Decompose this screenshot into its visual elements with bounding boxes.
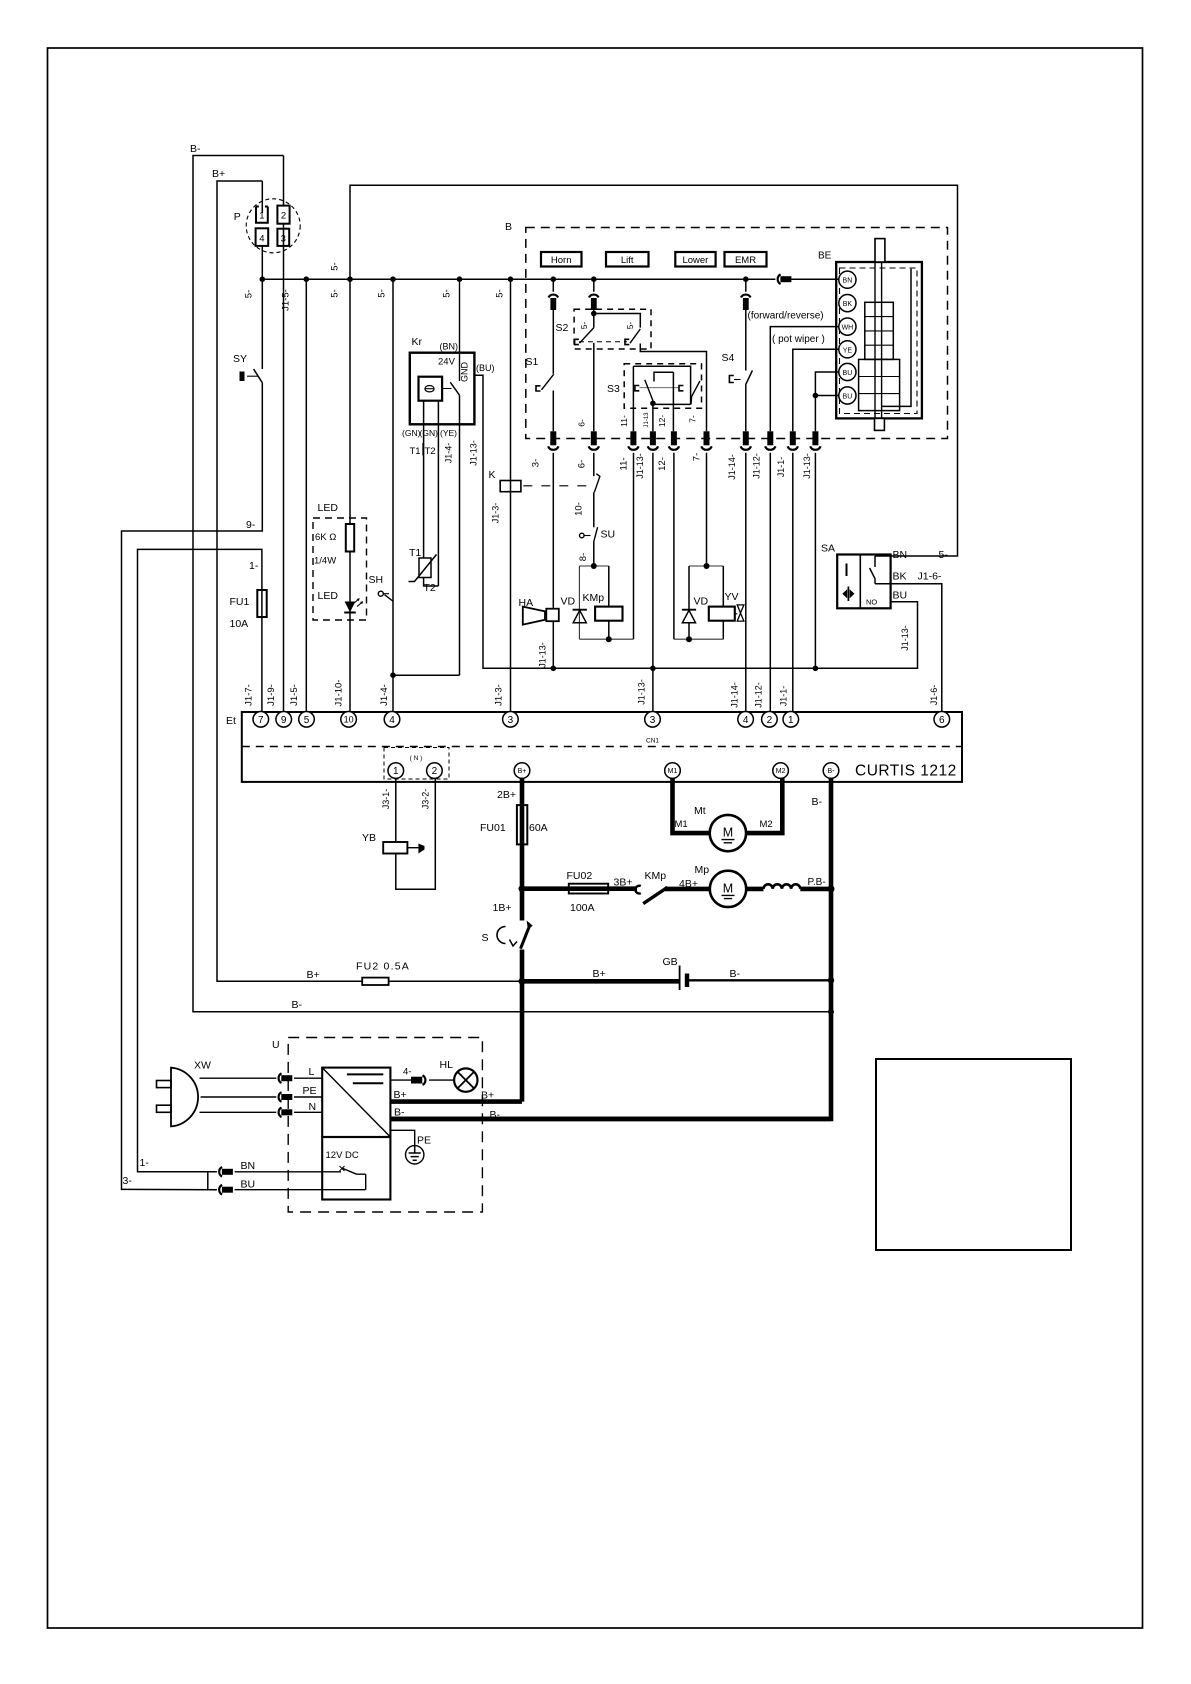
fuse FU1 10A bbox=[257, 590, 266, 617]
svg-text:3: 3 bbox=[650, 715, 656, 726]
svg-text:Lower: Lower bbox=[682, 255, 708, 266]
wire charger B- thick bbox=[390, 1117, 831, 1122]
LED dashed box bbox=[313, 518, 367, 620]
svg-text:T2: T2 bbox=[424, 582, 436, 594]
svg-text:T1: T1 bbox=[410, 446, 421, 457]
svg-text:NO: NO bbox=[866, 598, 877, 607]
S2 right branch bbox=[594, 314, 707, 567]
BE terminal BN bbox=[839, 271, 856, 288]
junction 7- at YV frame bbox=[704, 563, 710, 569]
connector Lift wire at box edge bbox=[591, 431, 597, 445]
svg-text:B: B bbox=[505, 221, 512, 233]
svg-text:(BU): (BU) bbox=[476, 363, 495, 373]
SA BK output to Et circle 6 bbox=[875, 584, 942, 712]
button Lower bbox=[675, 252, 715, 267]
svg-text:5-: 5- bbox=[442, 289, 453, 297]
Et bottom terminal M2 bbox=[773, 763, 789, 779]
K linkage dashed bbox=[523, 485, 589, 487]
switch SY bbox=[261, 279, 263, 369]
wire B- thick main bbox=[390, 778, 831, 1119]
svg-text:S3: S3 bbox=[607, 383, 620, 395]
wire J1-4 bus to Et circle 4 bbox=[392, 279, 394, 712]
fuse FU02 100A bbox=[569, 884, 608, 894]
junction battery/B- bbox=[828, 977, 834, 983]
connector 12- at box edge bbox=[671, 431, 677, 445]
svg-text:U: U bbox=[272, 1039, 280, 1051]
junction 8- at KMp frame bbox=[591, 563, 597, 569]
SA left cell symbols bbox=[846, 564, 848, 577]
wire 2B+ thick B+ drop bbox=[520, 778, 525, 889]
connector Horn wire at bus bbox=[549, 295, 559, 298]
svg-text:LED: LED bbox=[318, 590, 339, 602]
svg-text:J1-13-: J1-13- bbox=[635, 453, 645, 479]
svg-text:B-: B- bbox=[730, 968, 741, 980]
junction 1B+ bbox=[519, 885, 526, 892]
wire inductor to B- bbox=[800, 887, 831, 892]
fuse FU01 60A bbox=[517, 805, 527, 844]
wire B+ drop to P pin 1 bbox=[261, 181, 263, 213]
svg-text:M1: M1 bbox=[668, 768, 678, 775]
S2 linkage dashed bbox=[579, 341, 627, 343]
connector J1-13 at box edge bbox=[650, 431, 656, 445]
svg-text:S: S bbox=[482, 932, 489, 944]
svg-text:Mp: Mp bbox=[695, 864, 710, 876]
svg-text:J1-3-: J1-3- bbox=[494, 684, 505, 706]
svg-text:5-: 5- bbox=[330, 289, 341, 297]
svg-text:J1-13-: J1-13- bbox=[538, 642, 548, 668]
wire YE to J1-1 bbox=[793, 349, 839, 431]
svg-text:J1-6-: J1-6- bbox=[918, 571, 942, 583]
svg-text:J1-10-: J1-10- bbox=[334, 680, 345, 707]
svg-text:B-: B- bbox=[394, 1107, 405, 1119]
svg-text:J1-14-: J1-14- bbox=[730, 682, 740, 708]
BE ladder upper bbox=[865, 302, 894, 359]
sensor SA box bbox=[837, 555, 890, 609]
svg-text:LED: LED bbox=[318, 502, 339, 514]
svg-text:J1-13-: J1-13- bbox=[900, 625, 910, 651]
CN2 dashed box bbox=[384, 748, 449, 780]
svg-text:60A: 60A bbox=[529, 822, 548, 834]
svg-text:BE: BE bbox=[818, 251, 832, 262]
svg-text:BK: BK bbox=[893, 571, 907, 583]
svg-text:FU2 0.5A: FU2 0.5A bbox=[356, 961, 410, 973]
svg-text:8-: 8- bbox=[578, 553, 589, 561]
S2 left switch bbox=[575, 339, 579, 344]
wire Kr 24V input bbox=[459, 279, 461, 381]
wire Kr YE output bbox=[459, 395, 461, 675]
svg-text:B-: B- bbox=[190, 143, 201, 155]
svg-text:7: 7 bbox=[258, 715, 264, 726]
svg-text:J1-4-: J1-4- bbox=[379, 684, 390, 706]
svg-text:BU: BU bbox=[893, 590, 908, 602]
svg-text:(forward/reverse): (forward/reverse) bbox=[748, 311, 824, 322]
svg-text:HL: HL bbox=[440, 1059, 454, 1071]
svg-text:J1-4-: J1-4- bbox=[444, 443, 454, 464]
wire J3-1 / J3-2 loop bbox=[396, 778, 436, 889]
S3 common junction bbox=[650, 401, 656, 407]
svg-text:J1-1-: J1-1- bbox=[779, 686, 789, 707]
svg-text:S1: S1 bbox=[526, 356, 539, 368]
junction BU pair bbox=[813, 393, 819, 399]
12V switch bbox=[340, 1166, 345, 1171]
wire Kr T1 leg bbox=[423, 401, 425, 558]
svg-text:1B+: 1B+ bbox=[493, 902, 512, 914]
svg-text:9: 9 bbox=[281, 715, 287, 726]
connector EMR at box edge bbox=[743, 431, 749, 445]
svg-text:10: 10 bbox=[344, 715, 354, 725]
LED diode bbox=[345, 602, 356, 613]
svg-text:B+: B+ bbox=[518, 768, 527, 775]
svg-text:1/4W: 1/4W bbox=[314, 556, 336, 567]
S3 frame bbox=[633, 366, 690, 404]
svg-text:Kr: Kr bbox=[412, 336, 423, 348]
svg-text:1-: 1- bbox=[249, 560, 259, 572]
junction thin B- rail bbox=[828, 1009, 834, 1015]
connector 7- at box edge bbox=[704, 431, 710, 445]
svg-text:P.B-: P.B- bbox=[808, 877, 826, 888]
svg-text:(GN): (GN) bbox=[402, 428, 421, 438]
BE terminal BU1 bbox=[839, 363, 856, 380]
wire N bbox=[200, 1111, 323, 1113]
svg-text:FU01: FU01 bbox=[480, 822, 506, 834]
connector BU bbox=[219, 1185, 222, 1195]
P pin 3 bbox=[277, 229, 289, 246]
BE shaft bbox=[875, 239, 885, 262]
button Lift bbox=[606, 252, 649, 267]
spare box (bottom right) bbox=[876, 1059, 1071, 1250]
svg-text:SY: SY bbox=[233, 353, 247, 365]
control head box B (dashed) bbox=[526, 228, 948, 439]
S3 left blade bbox=[645, 380, 653, 401]
svg-text:2B+: 2B+ bbox=[497, 789, 516, 801]
junction KMp frame bottom bbox=[606, 636, 612, 642]
wire J1-13 S3 common down bbox=[652, 404, 654, 711]
inductor (pump) bbox=[764, 884, 801, 889]
wire J1-14 to Et circle 4 bbox=[745, 453, 747, 712]
connector PE bbox=[279, 1092, 282, 1102]
svg-text:J1-5-: J1-5- bbox=[281, 289, 292, 311]
wire B- : top run, left drop and bottom B- rail bbox=[193, 156, 831, 1012]
wire J1-3 bus to Et circle 3 bbox=[510, 279, 512, 712]
svg-text:B-: B- bbox=[812, 796, 823, 808]
S3 inner yoke bbox=[654, 372, 673, 381]
svg-text:3: 3 bbox=[508, 715, 514, 726]
svg-text:T1: T1 bbox=[409, 547, 421, 559]
svg-text:11-: 11- bbox=[619, 457, 630, 470]
wire to Mp bbox=[665, 887, 710, 892]
junction J1-4 / Kr-YE bbox=[390, 672, 396, 678]
svg-text:10-: 10- bbox=[574, 502, 585, 516]
Et terminal 4 bbox=[384, 712, 400, 728]
wire charger B+ thick bbox=[390, 981, 522, 1101]
svg-text:BN: BN bbox=[843, 278, 853, 285]
svg-text:L: L bbox=[309, 1066, 315, 1078]
svg-text:11-: 11- bbox=[619, 415, 629, 427]
S3 left contact bbox=[635, 386, 639, 391]
svg-text:2: 2 bbox=[767, 715, 773, 726]
svg-text:10A: 10A bbox=[230, 618, 249, 630]
junction bus/pin4 bbox=[260, 276, 266, 282]
junction S2 top bbox=[591, 311, 597, 317]
wire 9-/3- : SY down, across, to BU connector bbox=[122, 383, 263, 1190]
wire Lift drop bbox=[593, 279, 595, 431]
wire LED branch to Et circle 10 bbox=[349, 279, 351, 712]
svg-text:KMp: KMp bbox=[645, 870, 667, 882]
S2 right switch bbox=[625, 339, 629, 344]
junction VD/YV frame bottom bbox=[686, 636, 692, 642]
wire WH to J1-12 bbox=[770, 327, 839, 432]
wire FU2 to junction bbox=[389, 980, 522, 982]
svg-text:Mt: Mt bbox=[694, 805, 706, 817]
svg-text:B-: B- bbox=[828, 768, 836, 775]
wire J1-5 bus to Et circle 5 bbox=[305, 279, 307, 712]
svg-text:BK: BK bbox=[843, 301, 853, 308]
wire 11- S3 to KMp frame bbox=[632, 366, 634, 639]
svg-text:12-: 12- bbox=[657, 415, 667, 427]
thermal relay Kr box bbox=[410, 353, 475, 425]
svg-text:2: 2 bbox=[281, 211, 286, 222]
motor Mt wires bbox=[673, 778, 783, 833]
S3 right blade bbox=[691, 381, 700, 404]
svg-text:J1-13-: J1-13- bbox=[469, 440, 479, 466]
svg-text:1: 1 bbox=[393, 766, 399, 777]
svg-text:1: 1 bbox=[788, 715, 794, 726]
svg-text:6: 6 bbox=[939, 715, 945, 726]
Et terminal 9 bbox=[276, 712, 292, 728]
connector BN bbox=[219, 1167, 222, 1177]
K auxiliary contact on wire 6- bbox=[593, 453, 595, 476]
svg-text:Lift: Lift bbox=[621, 255, 634, 266]
connector Horn wire at box edge bbox=[550, 431, 556, 445]
svg-text:J1-1-: J1-1- bbox=[776, 457, 786, 478]
svg-text:5-: 5- bbox=[244, 290, 255, 298]
svg-text:J1-12-: J1-12- bbox=[754, 682, 764, 708]
svg-text:J1-13-: J1-13- bbox=[802, 453, 812, 479]
svg-text:FU1: FU1 bbox=[230, 596, 250, 608]
connector Lift wire at bus bbox=[589, 295, 599, 298]
svg-text:BU: BU bbox=[843, 394, 853, 401]
wire 4- to HL bbox=[390, 1079, 454, 1081]
wire BU bbox=[235, 1189, 366, 1191]
wire HA feed bbox=[552, 453, 554, 669]
svg-text:J1-6-: J1-6- bbox=[929, 685, 939, 706]
svg-text:5-: 5- bbox=[377, 289, 388, 297]
suppression frame YV/VD bbox=[674, 566, 723, 639]
svg-text:PE: PE bbox=[417, 1135, 431, 1147]
svg-text:5: 5 bbox=[304, 715, 310, 726]
P pin 4 bbox=[256, 228, 269, 246]
Et terminal 10 bbox=[341, 712, 357, 728]
BE terminal WH bbox=[839, 318, 856, 335]
svg-text:24V: 24V bbox=[438, 357, 456, 368]
svg-text:5-: 5- bbox=[625, 322, 635, 330]
P pin 2 bbox=[277, 206, 289, 224]
wire BN bbox=[235, 1171, 341, 1173]
svg-text:B-: B- bbox=[292, 999, 303, 1011]
svg-text:K: K bbox=[489, 469, 496, 481]
SA switch bbox=[874, 556, 876, 567]
Et bottom terminal B+ bbox=[514, 763, 530, 779]
svg-text:6-: 6- bbox=[577, 460, 588, 468]
wire Horn drop bbox=[552, 279, 554, 431]
svg-text:WH: WH bbox=[842, 325, 854, 332]
svg-text:B-: B- bbox=[490, 1109, 501, 1121]
wire 5- loop (top routing to SA BN) bbox=[350, 185, 958, 556]
switch box S2 (dashed) bbox=[574, 309, 651, 349]
resistor 6K 1/4W bbox=[346, 524, 354, 552]
svg-text:1: 1 bbox=[259, 211, 264, 222]
Et terminal 4b bbox=[738, 712, 754, 728]
P pin 1 bbox=[256, 207, 268, 223]
BE inner outline bbox=[882, 269, 911, 407]
wire B+ : top run, left drop to FU2 rail bbox=[217, 181, 362, 981]
charger box U (dashed) bbox=[288, 1038, 482, 1213]
svg-text:J3-1-: J3-1- bbox=[381, 789, 391, 810]
Et terminal 7 bbox=[253, 712, 269, 728]
svg-text:T2: T2 bbox=[425, 446, 436, 457]
svg-text:CN1: CN1 bbox=[646, 738, 659, 745]
wire 12- S3 to YV frame bbox=[672, 372, 675, 639]
button Horn bbox=[541, 252, 582, 267]
svg-text:BU: BU bbox=[843, 370, 853, 377]
svg-text:2: 2 bbox=[432, 766, 438, 777]
svg-text:YV: YV bbox=[725, 591, 739, 603]
junction bus/EMR bbox=[743, 276, 749, 282]
svg-text:XW: XW bbox=[194, 1060, 211, 1072]
connector EMR wire below bus bbox=[741, 295, 751, 298]
svg-text:4: 4 bbox=[389, 715, 395, 726]
junction bus/J1-5 bbox=[304, 276, 310, 282]
Et bottom terminal 2 bbox=[427, 763, 443, 779]
svg-text:5-: 5- bbox=[495, 289, 506, 297]
svg-text:B+: B+ bbox=[212, 168, 225, 180]
wire main bus 5- bbox=[262, 278, 839, 280]
svg-text:SU: SU bbox=[601, 529, 616, 541]
svg-text:KMp: KMp bbox=[583, 592, 605, 604]
junction bus/Kr bbox=[457, 276, 463, 282]
svg-text:B+: B+ bbox=[307, 969, 320, 981]
connector L bbox=[279, 1073, 282, 1083]
Et terminal 5 bbox=[299, 712, 315, 728]
wire B- drop to P pin 2 bbox=[283, 156, 285, 206]
svg-text:B+: B+ bbox=[481, 1090, 494, 1102]
wire link BN/BU bottom bbox=[207, 1172, 209, 1190]
junction bus/J1-4 bbox=[390, 276, 396, 282]
Et terminal 3b bbox=[645, 712, 661, 728]
svg-text:J1-5-: J1-5- bbox=[289, 684, 300, 706]
svg-text:BN: BN bbox=[241, 1160, 256, 1172]
svg-text:5-: 5- bbox=[579, 322, 589, 330]
connector 4- bbox=[423, 1075, 426, 1085]
svg-text:YB: YB bbox=[362, 832, 376, 844]
wire Kr GND output to node line B and SA BU bbox=[474, 375, 917, 668]
junction S3-J1-13 / line B bbox=[650, 666, 656, 672]
connector P (4-pin plug) bbox=[246, 199, 300, 253]
Kr switch blade bbox=[450, 382, 459, 395]
svg-text:BU: BU bbox=[241, 1179, 256, 1191]
suppression frame KMp/VD bbox=[579, 566, 633, 639]
svg-text:M2: M2 bbox=[760, 819, 773, 830]
junction B+ rail bbox=[519, 978, 526, 985]
svg-text:Et: Et bbox=[226, 715, 236, 727]
wire P pin4 to bus bbox=[261, 246, 263, 279]
junction bus/K bbox=[508, 276, 514, 282]
svg-text:S2: S2 bbox=[556, 322, 569, 334]
svg-text:6K Ω: 6K Ω bbox=[315, 532, 336, 543]
svg-text:4-: 4- bbox=[403, 1067, 411, 1078]
Et terminal 2b bbox=[762, 712, 778, 728]
svg-text:(GN): (GN) bbox=[420, 428, 439, 438]
wire EMR drop bbox=[745, 279, 747, 431]
svg-text:12V DC: 12V DC bbox=[326, 1150, 359, 1161]
wire P pin3 to Et circle 9 (J1-9) bbox=[283, 224, 285, 712]
BE terminal YE bbox=[839, 341, 856, 358]
svg-text:P: P bbox=[234, 211, 241, 223]
wire 1- : BN rail up to FU1 and Et circle 7 bbox=[138, 549, 262, 1171]
junction BE-J1-13 / line B bbox=[813, 666, 819, 672]
connector 11- at box edge bbox=[630, 431, 636, 445]
svg-text:4: 4 bbox=[743, 715, 749, 726]
svg-text:4: 4 bbox=[259, 234, 264, 245]
svg-text:N: N bbox=[309, 1101, 317, 1113]
connector bus to BE bbox=[778, 274, 781, 284]
svg-text:J1-9-: J1-9- bbox=[266, 684, 277, 706]
svg-text:3-: 3- bbox=[123, 1175, 133, 1187]
svg-text:( N ): ( N ) bbox=[410, 755, 423, 762]
svg-text:J1-7-: J1-7- bbox=[244, 684, 255, 706]
button EMR bbox=[725, 252, 767, 267]
junction bus/Horn bbox=[551, 276, 557, 282]
svg-text:9-: 9- bbox=[246, 519, 256, 531]
svg-text:FU02: FU02 bbox=[567, 870, 593, 882]
charger rectifier box bbox=[322, 1068, 390, 1137]
svg-text:J1-14-: J1-14- bbox=[727, 454, 737, 480]
svg-text:M2: M2 bbox=[776, 768, 786, 775]
svg-text:B+: B+ bbox=[394, 1089, 407, 1101]
wire FU02 feed bbox=[522, 886, 637, 891]
junction bus/Lift bbox=[591, 276, 597, 282]
BE terminal BK bbox=[839, 295, 856, 312]
wire J1-1 to Et circle 1 bbox=[792, 453, 794, 712]
svg-text:PE: PE bbox=[303, 1085, 317, 1097]
svg-text:S4: S4 bbox=[722, 352, 735, 364]
svg-text:( pot wiper ): ( pot wiper ) bbox=[772, 334, 825, 345]
wire Mp to inductor bbox=[746, 887, 763, 892]
wire J1-12 to Et circle 2 bbox=[769, 453, 771, 712]
connector BE-J1-13 at box edge bbox=[812, 431, 818, 445]
svg-text:5-: 5- bbox=[330, 262, 341, 270]
svg-text:GND: GND bbox=[460, 362, 470, 383]
svg-text:YE: YE bbox=[843, 347, 853, 354]
connector N bbox=[279, 1108, 282, 1118]
switch box S3 (dashed) bbox=[624, 364, 701, 408]
svg-text:J1-3-: J1-3- bbox=[491, 503, 501, 524]
connector J1-1 at box edge bbox=[790, 431, 796, 445]
junction HA / line B bbox=[551, 666, 557, 672]
relay coil K bbox=[500, 481, 521, 492]
svg-text:M: M bbox=[723, 826, 733, 840]
Et terminal 6b bbox=[934, 712, 950, 728]
svg-text:(BN): (BN) bbox=[440, 342, 459, 352]
svg-text:3-: 3- bbox=[531, 459, 542, 467]
svg-text:J3-2-: J3-2- bbox=[421, 789, 431, 810]
svg-text:M1: M1 bbox=[675, 819, 688, 830]
Et bottom terminal 1 bbox=[388, 763, 404, 779]
Et terminal 3a bbox=[503, 712, 519, 728]
svg-text:EMR: EMR bbox=[735, 255, 756, 266]
svg-text:J1-12-: J1-12- bbox=[752, 453, 762, 479]
svg-text:SA: SA bbox=[821, 543, 835, 555]
